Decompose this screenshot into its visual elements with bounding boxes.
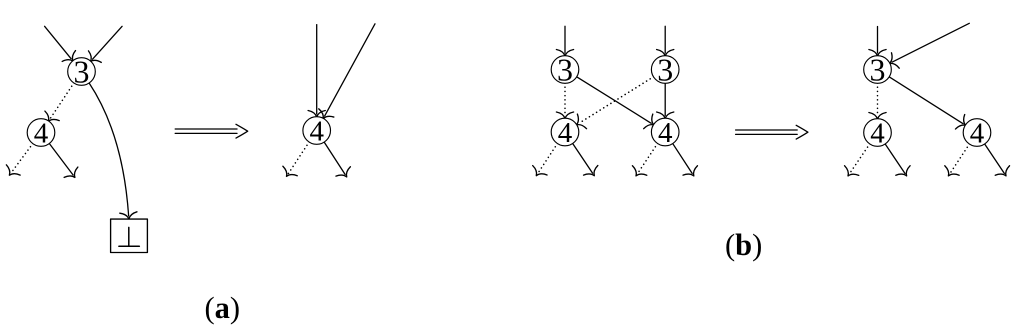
- edge: node 4 left child stub, dotted (a-rhs): [279, 142, 309, 181]
- edge: right 4 left child stub, dotted (b): [629, 143, 658, 180]
- svg-text:4: 4: [309, 115, 324, 147]
- edge: right 4 left child stub, dotted (b-rhs): [941, 144, 969, 181]
- edge: node 4 right child stub (a): [49, 143, 82, 182]
- left node 4 (b-rhs): [864, 117, 892, 149]
- rewrite arrow (b): [736, 125, 808, 139]
- svg-text:3: 3: [657, 52, 673, 88]
- edge: node 3 to right node 4 (b-rhs): [889, 77, 970, 133]
- wire: diagonal inbound edge into node 4 (a-rhs): [316, 24, 375, 123]
- edge: left 4 right child stub (b-rhs): [885, 144, 914, 181]
- svg-text:4: 4: [658, 117, 673, 149]
- svg-text:4: 4: [970, 117, 985, 149]
- node 4 (a): [27, 117, 55, 149]
- wire: inbound edge into left node 3 (b): [556, 26, 573, 56]
- edge: right 4 right child stub (b): [673, 143, 701, 180]
- wire: vertical inbound edge into node 4 (a-rhs): [308, 25, 325, 117]
- node 3 (a): [68, 54, 96, 90]
- edge: left 4 left child stub, dotted (b-rhs): [841, 144, 870, 181]
- right node 4 (b-rhs): [963, 117, 991, 149]
- wire: long diagonal inbound edge into node 3 (b-rhs): [886, 23, 970, 71]
- right node 3 (b): [651, 52, 679, 88]
- svg-text:4: 4: [558, 117, 573, 149]
- edge: node 3 to node 4, dotted (a): [41, 83, 74, 126]
- left node 4 (b): [551, 117, 579, 149]
- svg-text:(a): (a): [205, 291, 241, 325]
- edge: left 3 to left 4, dotted (b): [556, 83, 573, 119]
- rewrite arrow (a): [175, 124, 248, 138]
- wire: vertical inbound edge into node 3 (b-rhs): [869, 27, 886, 57]
- right node 4 (b): [651, 117, 679, 149]
- wire: left inbound edge into node 3 (a): [45, 26, 80, 66]
- edge: node 3 to left node 4, dotted (b-rhs): [869, 83, 886, 119]
- node 3 (b-rhs): [864, 52, 892, 88]
- svg-text:4: 4: [34, 117, 49, 149]
- bottom node: box with falsum symbol (a): [111, 219, 148, 252]
- edge: right 4 right child stub (b-rhs): [985, 144, 1014, 181]
- edge: left 3 to right 4, crossing (b): [576, 77, 658, 133]
- svg-text:3: 3: [557, 52, 573, 88]
- edge: curved edge node 3 to bottom box (a): [89, 83, 138, 220]
- edge: right 3 to left 4, crossing dotted (b): [572, 77, 654, 133]
- svg-text:3: 3: [870, 52, 886, 88]
- svg-text:(b): (b): [725, 228, 762, 262]
- edge: left 4 right child stub (b): [573, 143, 602, 180]
- svg-text:4: 4: [870, 117, 885, 149]
- svg-text:3: 3: [74, 54, 90, 90]
- edge: node 4 right child stub (a-rhs): [324, 142, 354, 182]
- edge: node 4 left child stub, dotted (a): [2, 143, 32, 180]
- left node 3 (b): [551, 52, 579, 88]
- node 4 (a-rhs): [303, 115, 331, 147]
- wire: inbound edge into right node 3 (b): [657, 26, 674, 56]
- edge: left 4 left child stub, dotted (b): [529, 143, 557, 180]
- edge: right 3 to right 4 (b): [657, 83, 674, 119]
- wire: right inbound edge into node 3 (a): [84, 26, 122, 67]
